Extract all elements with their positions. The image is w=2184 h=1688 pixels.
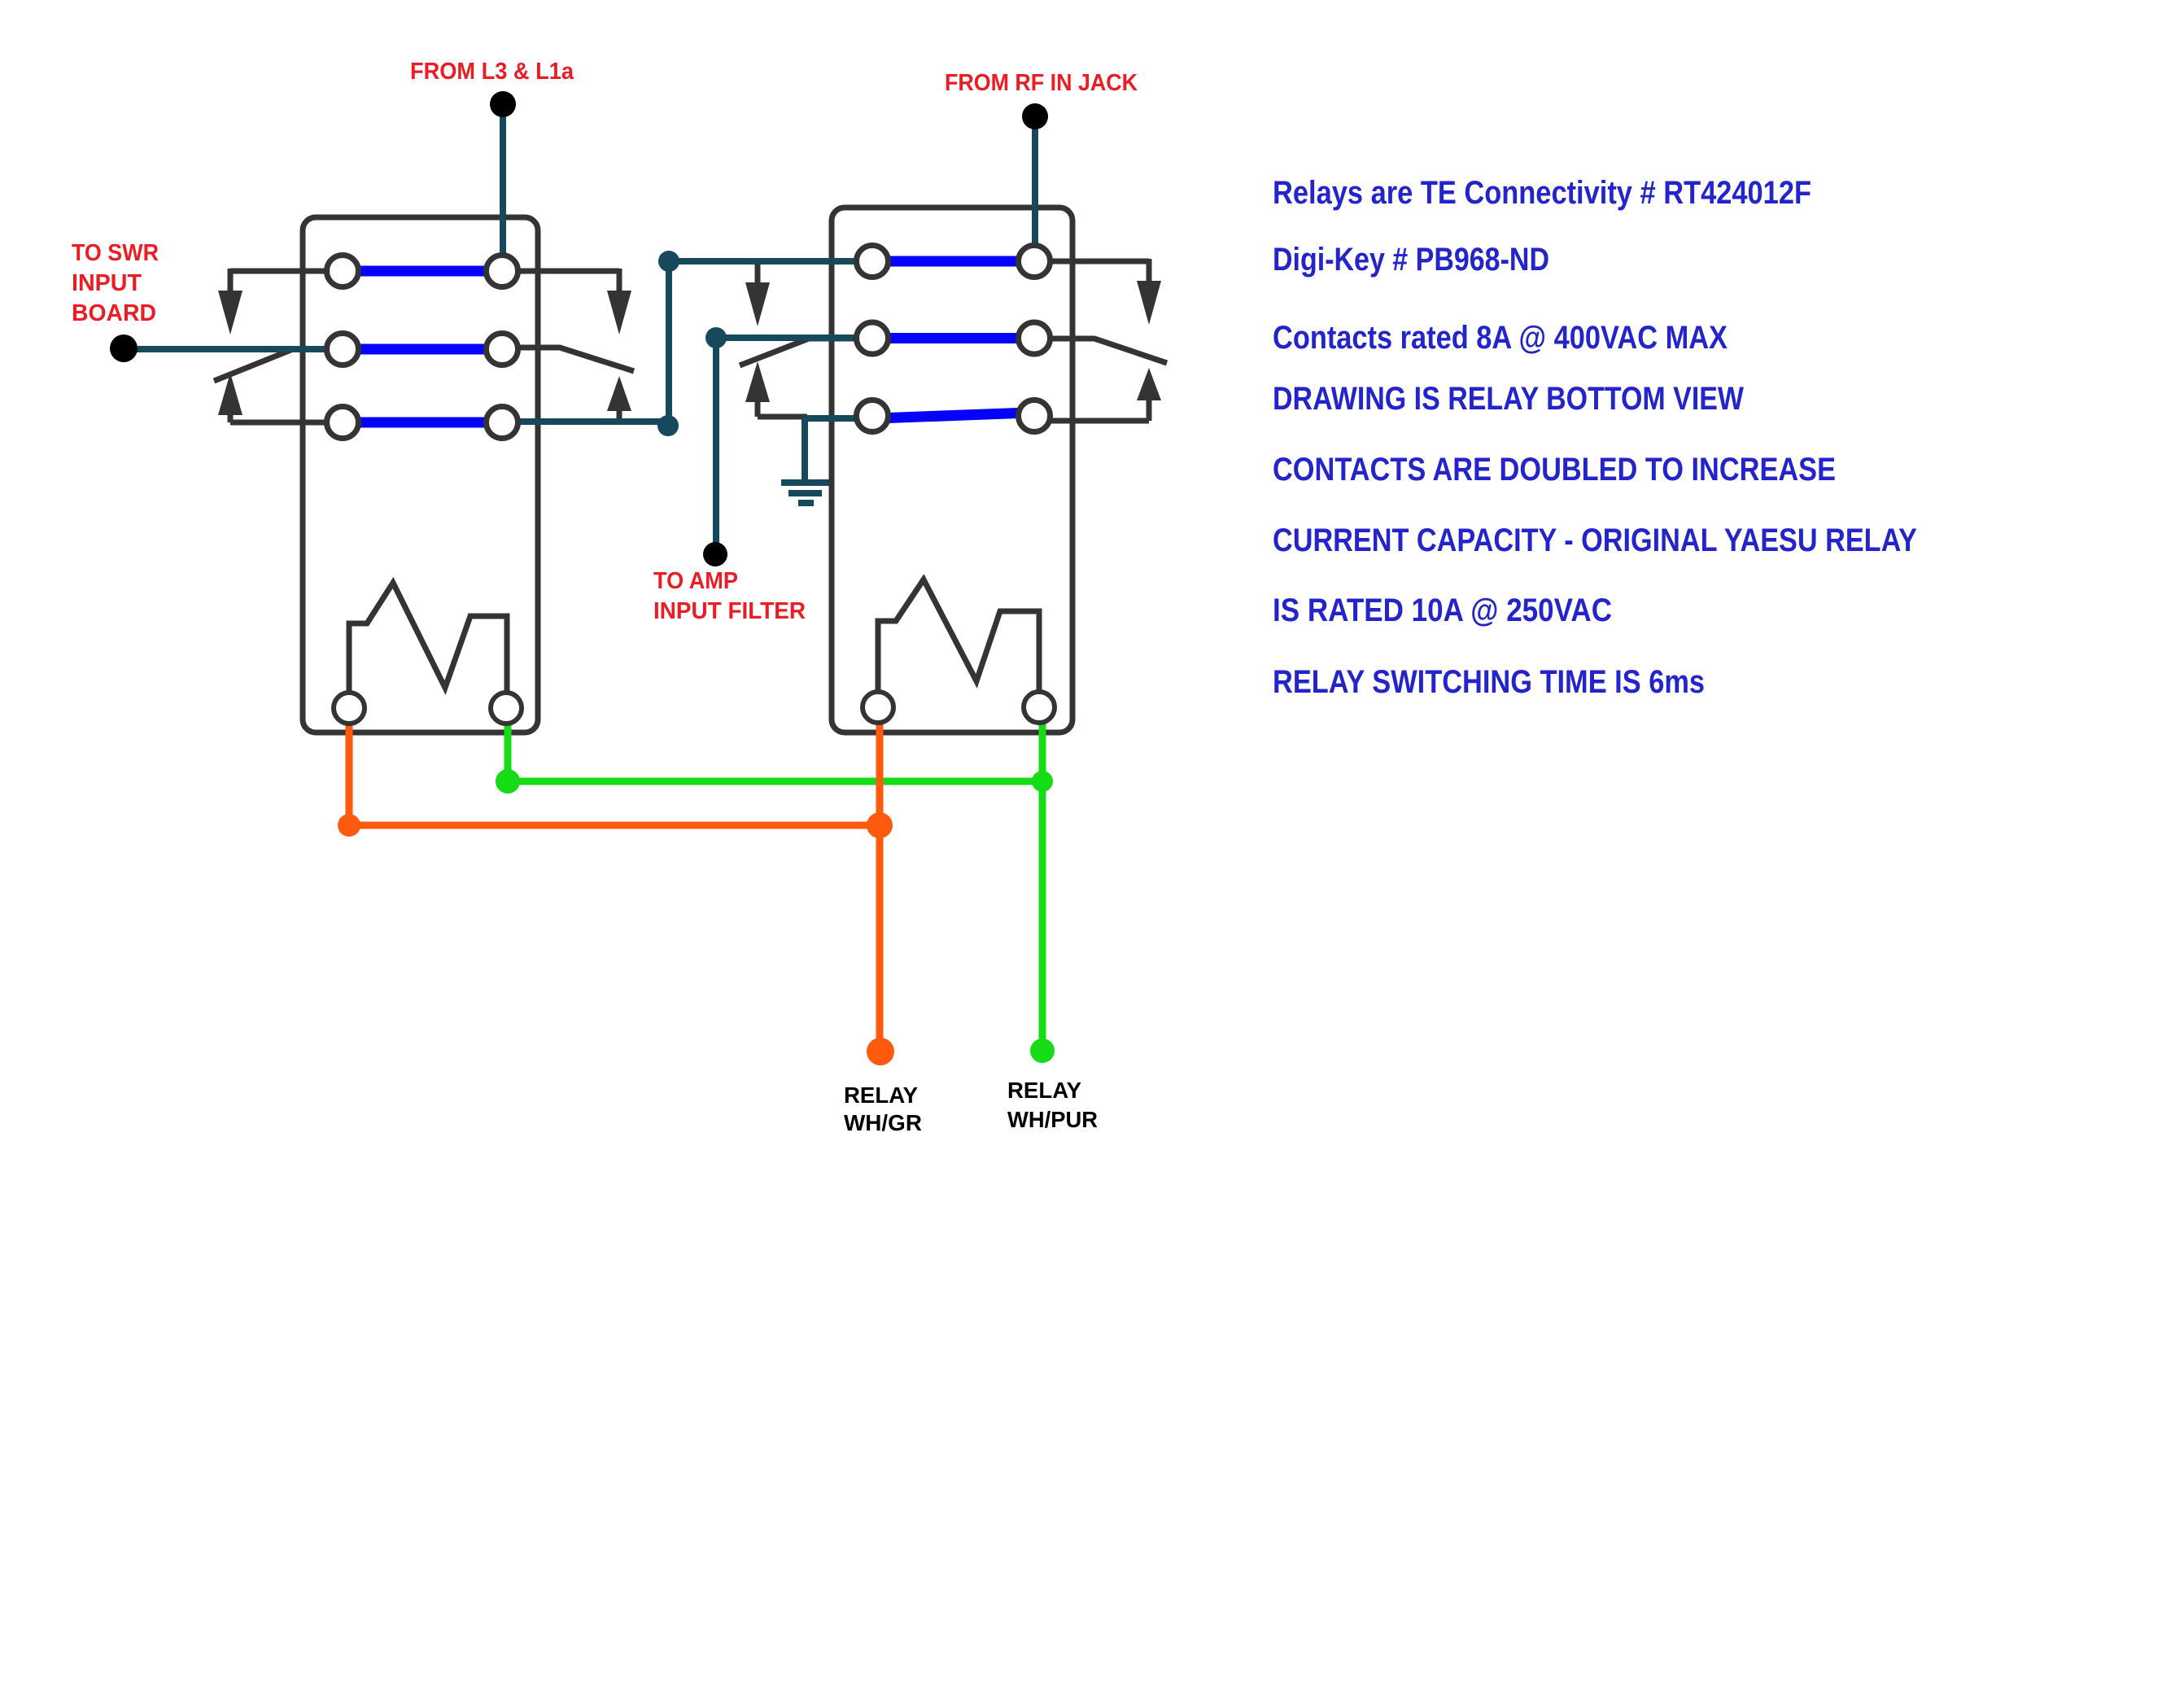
svg-text:CURRENT CAPACITY - ORIGINAL YA: CURRENT CAPACITY - ORIGINAL YAESU RELAY bbox=[1273, 523, 1917, 558]
wire K2 coil left pin down to relay WH/GR terminal (orange) bbox=[876, 722, 884, 1052]
node FROM L3 & L1a bbox=[490, 91, 516, 117]
K1 armature right bbox=[518, 348, 634, 371]
svg-text:IS RATED 10A @ 250VAC: IS RATED 10A @ 250VAC bbox=[1273, 593, 1612, 628]
K1 contact bar row1 bbox=[345, 266, 500, 277]
node TO AMP INPUT FILTER bbox=[703, 542, 727, 566]
junction B bbox=[658, 251, 679, 272]
junction green left bbox=[496, 769, 520, 794]
svg-text:TO AMP: TO AMP bbox=[653, 568, 738, 594]
K2 contact bar row2 bbox=[875, 333, 1032, 343]
wire K1 coil left pin down (orange) bbox=[346, 724, 353, 825]
svg-text:Contacts rated 8A @ 400VAC MAX: Contacts rated 8A @ 400VAC MAX bbox=[1273, 320, 1728, 356]
wire junction A to junction B vertical bbox=[666, 261, 672, 424]
wire from RF in jack to K2 row1 right bbox=[1032, 122, 1038, 244]
K2 right bracket with arrows bbox=[1051, 259, 1161, 421]
K1 coil bbox=[349, 583, 507, 693]
svg-text:BOARD: BOARD bbox=[72, 300, 156, 326]
svg-text:WH/PUR: WH/PUR bbox=[1007, 1107, 1098, 1132]
wire K1 coil right pin down (green) bbox=[505, 724, 512, 781]
svg-text:DRAWING IS RELAY BOTTOM VIEW: DRAWING IS RELAY BOTTOM VIEW bbox=[1273, 381, 1744, 417]
svg-text:INPUT: INPUT bbox=[72, 270, 142, 296]
node FROM RF IN JACK bbox=[1022, 103, 1048, 129]
wire from L3 jack to K1 row1 right bbox=[500, 111, 506, 256]
wire orange horizontal bbox=[349, 822, 880, 829]
node RELAY WH/PUR terminal bbox=[1030, 1039, 1055, 1063]
K2 contact bar row3 bbox=[877, 413, 1029, 418]
ground riser bbox=[802, 418, 808, 480]
K1 contact pins bbox=[327, 256, 518, 439]
svg-text:FROM RF IN JACK: FROM RF IN JACK bbox=[945, 70, 1138, 96]
svg-text:Digi-Key # PB968-ND: Digi-Key # PB968-ND bbox=[1273, 242, 1549, 278]
K2 coil pins bbox=[863, 692, 1055, 723]
wire K1 row3 right to junction A bbox=[517, 418, 669, 425]
wire junction C to K2 row2 left bbox=[716, 335, 857, 341]
wire junction C down to amp input filter bbox=[713, 338, 719, 543]
K1 left bracket with arrows bbox=[218, 269, 327, 422]
K2 armature right bbox=[1052, 339, 1167, 363]
node RELAY WH/GR terminal bbox=[867, 1038, 894, 1065]
svg-text:WH/GR: WH/GR bbox=[844, 1110, 922, 1135]
node TO SWR INPUT BOARD bbox=[110, 335, 138, 362]
junction orange left bbox=[338, 814, 360, 837]
K2 left bracket with arrows bbox=[745, 261, 807, 417]
wire K2 coil right pin down to relay WH/PUR terminal (green) bbox=[1039, 722, 1046, 1052]
svg-text:INPUT FILTER: INPUT FILTER bbox=[653, 598, 806, 624]
K1 right bracket with arrows bbox=[518, 269, 631, 422]
junction A bbox=[657, 415, 679, 436]
svg-text:RELAY: RELAY bbox=[844, 1082, 918, 1108]
svg-text:FROM L3 & L1a: FROM L3 & L1a bbox=[410, 59, 574, 85]
svg-text:RELAY SWITCHING TIME IS 6ms: RELAY SWITCHING TIME IS 6ms bbox=[1273, 664, 1705, 700]
svg-text:RELAY: RELAY bbox=[1007, 1078, 1081, 1103]
relay K1 body bbox=[303, 217, 538, 732]
ground bbox=[781, 483, 829, 503]
wire green horizontal bbox=[508, 778, 1042, 785]
relay K2 body bbox=[832, 208, 1072, 732]
K2 armature left bbox=[740, 339, 854, 365]
K2 contact pins bbox=[857, 246, 1051, 432]
K1 armature left bbox=[214, 349, 293, 381]
junction green right bbox=[1032, 771, 1053, 792]
K1 contact bar row2 bbox=[345, 344, 500, 355]
junction C bbox=[705, 327, 727, 348]
K1 coil pins bbox=[334, 693, 522, 724]
svg-text:CONTACTS ARE DOUBLED TO INCREA: CONTACTS ARE DOUBLED TO INCREASE bbox=[1273, 452, 1836, 488]
wire to SWR input board bbox=[124, 346, 328, 352]
svg-text:TO SWR: TO SWR bbox=[72, 240, 159, 266]
svg-text:Relays are TE Connectivity # R: Relays are TE Connectivity # RT424012F bbox=[1273, 175, 1811, 211]
junction orange right bbox=[867, 812, 893, 838]
K2 contact bar row1 bbox=[875, 256, 1032, 267]
wire junction B to K2 row1 left bbox=[669, 258, 857, 265]
K2 coil bbox=[878, 579, 1039, 692]
K1 contact bar row3 bbox=[345, 418, 500, 428]
wire ground to K2 row3 left bbox=[804, 415, 857, 422]
